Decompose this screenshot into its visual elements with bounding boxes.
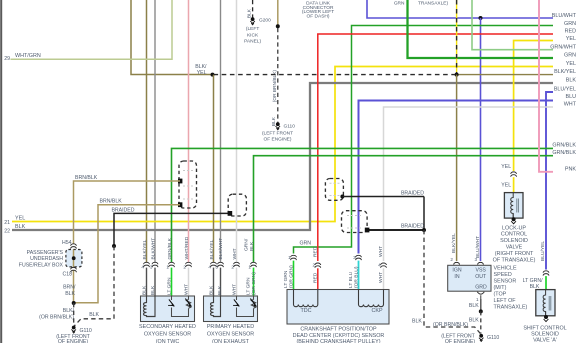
wire RED to TDC bbox=[318, 34, 553, 261]
svg-text:OUT: OUT bbox=[475, 274, 487, 280]
svg-text:(LEFT: (LEFT bbox=[246, 26, 259, 32]
wire BLU/YEL bbox=[546, 92, 553, 270]
wire WHT primary O2 pin2 vertical (shielded) bbox=[236, 0, 238, 262]
wire BLK dashed from braided drain to G110 left bbox=[74, 246, 114, 326]
wire LT GRN (OR GRN) into TDC bbox=[293, 261, 295, 290]
wire BRAIDED shield (lower right) bbox=[367, 229, 425, 231]
svg-text:CONTROL: CONTROL bbox=[501, 232, 527, 238]
svg-text:BLU/WHT: BLU/WHT bbox=[475, 236, 481, 258]
node BRN/BLK splice bbox=[276, 24, 280, 28]
wire LT GRN to sec O2 element bbox=[171, 268, 173, 296]
wire BLK/WHT secondary O2 pin3 vertical bbox=[154, 0, 156, 262]
sensor element (primary) bbox=[237, 296, 254, 317]
svg-text:2: 2 bbox=[231, 264, 234, 269]
svg-text:H54: H54 bbox=[62, 240, 72, 246]
pin contact braided lower bbox=[365, 228, 370, 233]
svg-text:SOLENOID: SOLENOID bbox=[531, 332, 559, 338]
svg-text:FUSE/RELAY BOX: FUSE/RELAY BOX bbox=[19, 262, 64, 268]
svg-text:(OR BLU): (OR BLU) bbox=[354, 266, 360, 288]
shift control solenoid valve A box bbox=[536, 290, 555, 316]
svg-text:BLK: BLK bbox=[217, 285, 223, 295]
svg-text:1: 1 bbox=[166, 264, 169, 269]
wire BLK/YEL dashed horizontal (junction A to B) bbox=[214, 74, 456, 76]
svg-text:OXYGEN SENSOR: OXYGEN SENSOR bbox=[207, 332, 254, 338]
passenger underdash fuse/relay box (dashed) bbox=[66, 250, 82, 267]
primary heated oxygen sensor box bbox=[204, 296, 258, 322]
wire LT GRN (OR GRN) to pri O2 element bbox=[253, 268, 255, 296]
pin contact braided bbox=[228, 211, 233, 216]
wire GRN to TDC bbox=[294, 26, 554, 254]
svg-text:(OR GRN): (OR GRN) bbox=[251, 272, 257, 295]
wire WHT to CKP bbox=[384, 107, 554, 261]
left edge component border bbox=[0, 0, 2, 343]
svg-text:OF ENGINE): OF ENGINE) bbox=[264, 136, 292, 142]
svg-text:YEL: YEL bbox=[566, 36, 576, 42]
wire BRN/BLK C18 to junction bbox=[73, 270, 75, 303]
lock-up solenoid coil bbox=[511, 193, 513, 219]
connector box around WHT wire (dashed) bbox=[228, 194, 246, 216]
wire BLK/YEL secondary O2 pin4 vertical bbox=[146, 0, 148, 262]
svg-text:DEAD CENTER (CKP/TDC) SENSOR: DEAD CENTER (CKP/TDC) SENSOR bbox=[293, 333, 385, 339]
svg-text:WHT: WHT bbox=[378, 272, 384, 283]
wire BLK to sec O2 heater a bbox=[146, 268, 148, 296]
svg-text:G110: G110 bbox=[284, 124, 296, 130]
svg-text:G110: G110 bbox=[487, 335, 499, 341]
svg-text:YEL: YEL bbox=[197, 70, 207, 76]
svg-text:(ON TWC: (ON TWC bbox=[156, 339, 180, 343]
node BLU/WHT branch bbox=[479, 16, 483, 20]
wire BRN/BLK lower branch (junction to engine connector) bbox=[74, 205, 180, 303]
VSS pin 2 entry bbox=[454, 262, 460, 264]
svg-text:OF ENGINE): OF ENGINE) bbox=[58, 339, 89, 343]
svg-text:GRN/BLK: GRN/BLK bbox=[552, 143, 576, 149]
VSS pin 3 entry bbox=[478, 262, 484, 264]
heater element (primary) bbox=[211, 296, 221, 317]
svg-text:YEL: YEL bbox=[15, 216, 25, 222]
svg-text:CRANKSHAFT POSITION/TOP: CRANKSHAFT POSITION/TOP bbox=[300, 327, 377, 333]
svg-text:GRN: GRN bbox=[564, 21, 576, 27]
connector + pin 1 at x=253.5 bbox=[251, 262, 257, 264]
ground tick lock-up solenoid bbox=[511, 221, 516, 224]
pin contact BRN/BLK lower bbox=[178, 202, 182, 207]
svg-text:(TOP: (TOP bbox=[494, 292, 507, 298]
svg-text:4: 4 bbox=[378, 263, 381, 268]
node braided junction bbox=[422, 228, 426, 232]
svg-text:BLK: BLK bbox=[249, 241, 255, 251]
wire BLK to pri O2 heater a bbox=[213, 268, 215, 296]
svg-text:IGN: IGN bbox=[452, 268, 461, 274]
svg-text:SECONDARY HEATED: SECONDARY HEATED bbox=[139, 324, 196, 330]
connector + pin 1 at x=171.5 bbox=[169, 262, 175, 264]
wire BRN/BLK upper branch (H54 to engine connector) bbox=[74, 181, 181, 244]
svg-text:3: 3 bbox=[150, 264, 153, 269]
svg-text:WHT: WHT bbox=[231, 284, 237, 295]
svg-text:LT GRN/: LT GRN/ bbox=[523, 278, 544, 284]
svg-text:GRN/BLK: GRN/BLK bbox=[167, 237, 173, 259]
wire through fuse box bbox=[73, 250, 75, 268]
svg-text:BRN/: BRN/ bbox=[63, 285, 76, 291]
svg-text:3: 3 bbox=[474, 257, 477, 262]
svg-text:BLK/YEL: BLK/YEL bbox=[142, 239, 148, 259]
svg-text:SHIFT CONTROL: SHIFT CONTROL bbox=[523, 325, 566, 331]
svg-text:BLU/YEL: BLU/YEL bbox=[554, 86, 576, 92]
connector box around GRN+BLU wires (dashed) bbox=[342, 211, 368, 233]
wire BRN/BLK from top bbox=[277, 0, 279, 26]
svg-text:PRIMARY HEATED: PRIMARY HEATED bbox=[207, 324, 254, 330]
svg-text:YEL: YEL bbox=[501, 182, 511, 188]
pin contact BRN/BLK upper bbox=[178, 179, 182, 184]
svg-text:GRD: GRD bbox=[475, 284, 487, 290]
svg-text:YEL: YEL bbox=[501, 164, 511, 170]
wire GRN/WHT bbox=[472, 0, 553, 50]
wire BLK dashed VSS to G110 bbox=[480, 311, 482, 333]
svg-text:(BEHIND CRANKSHAFT PULLEY): (BEHIND CRANKSHAFT PULLEY) bbox=[296, 339, 380, 343]
node inside fuse box bbox=[72, 256, 76, 260]
svg-text:GRN/BLK: GRN/BLK bbox=[552, 150, 576, 156]
svg-text:BLK: BLK bbox=[469, 318, 479, 324]
svg-text:1: 1 bbox=[288, 255, 291, 260]
wire BLK to G200 (dashed) bbox=[252, 0, 254, 18]
CKP pickup coil bbox=[359, 290, 384, 307]
wire WHT into CKP bbox=[383, 268, 385, 290]
svg-text:1: 1 bbox=[248, 264, 251, 269]
connector + pin 2 at x=188.5 bbox=[186, 262, 192, 264]
wire YEL to lock-up solenoid bbox=[514, 41, 553, 172]
svg-text:RED: RED bbox=[313, 246, 319, 257]
svg-text:(M/T): (M/T) bbox=[494, 285, 507, 291]
ghost wires inside connector bbox=[183, 170, 193, 172]
svg-text:BRAIDED: BRAIDED bbox=[401, 190, 424, 196]
svg-text:GRN: GRN bbox=[394, 0, 405, 6]
wire WHT to sec O2 element bbox=[188, 268, 190, 296]
wire BLK/WHT primary O2 pin3 vertical bbox=[220, 0, 222, 262]
svg-text:1: 1 bbox=[476, 297, 479, 302]
wire BLK/YEL right segment bbox=[457, 74, 553, 76]
lock-up control solenoid valve box bbox=[504, 193, 523, 219]
svg-text:BLK/: BLK/ bbox=[63, 308, 75, 314]
node BRN/BLK junction bbox=[72, 301, 76, 305]
wire BLK to sec O2 heater b bbox=[154, 268, 156, 296]
svg-text:VALVE: VALVE bbox=[506, 245, 523, 251]
svg-text:UNDERDASH: UNDERDASH bbox=[30, 256, 63, 262]
svg-text:VSS: VSS bbox=[476, 268, 487, 274]
svg-text:VALVE 'A': VALVE 'A' bbox=[533, 338, 557, 343]
wire BLK dashed from braided to G110 right bbox=[424, 230, 481, 334]
svg-text:LT GRN: LT GRN bbox=[283, 270, 289, 288]
node braided drain splice bbox=[112, 244, 116, 248]
connector + pin 3 CKP LT BLU bbox=[356, 255, 362, 257]
svg-text:WHT/GRN: WHT/GRN bbox=[15, 53, 41, 59]
wire BLK from VSS GRD bbox=[480, 299, 482, 311]
ground G110 (center) bbox=[276, 122, 280, 126]
svg-text:BLU: BLU bbox=[566, 94, 577, 100]
svg-text:BLK: BLK bbox=[247, 8, 253, 18]
svg-text:BLK: BLK bbox=[150, 285, 156, 295]
connector + pin 4 at x=146.5 bbox=[144, 262, 150, 264]
connector box around YEL wire (dashed) bbox=[325, 179, 343, 201]
svg-text:BLK: BLK bbox=[566, 78, 577, 84]
node braided tap on YEL connector bbox=[340, 195, 344, 199]
node BLK/YEL junction B bbox=[455, 73, 459, 77]
svg-text:TDC: TDC bbox=[300, 308, 311, 314]
wire GRN (countershaft speed sensor) bbox=[408, 0, 554, 58]
svg-text:IN: IN bbox=[454, 274, 459, 280]
wire GRN/BLK primary O2 bbox=[254, 156, 554, 262]
svg-text:BRN/BLK: BRN/BLK bbox=[75, 175, 98, 181]
svg-text:TRANSAXLE): TRANSAXLE) bbox=[494, 305, 528, 311]
node solenoid ground bbox=[512, 217, 516, 221]
wire LT GRN/BLK into shift solenoid bbox=[545, 276, 547, 290]
svg-text:BRAIDED: BRAIDED bbox=[401, 224, 424, 230]
svg-text:(RIGHT FRONT: (RIGHT FRONT bbox=[495, 251, 534, 257]
svg-text:GRN/WHT: GRN/WHT bbox=[550, 44, 576, 50]
svg-text:KICK: KICK bbox=[247, 32, 259, 38]
svg-text:(OR GRN): (OR GRN) bbox=[289, 265, 295, 288]
ghost marks in connector boxes bbox=[347, 215, 362, 217]
svg-text:WHT: WHT bbox=[232, 248, 238, 259]
svg-text:BLK/WHT: BLK/WHT bbox=[218, 238, 224, 260]
svg-text:BLK: BLK bbox=[208, 285, 214, 295]
TDC pickup coil bbox=[294, 290, 318, 307]
vehicle speed sensor box bbox=[448, 265, 491, 291]
connector + pin 3 at x=220.5 bbox=[218, 262, 224, 264]
svg-text:BLK: BLK bbox=[412, 318, 422, 324]
svg-text:2: 2 bbox=[450, 257, 453, 262]
svg-text:BLK/WHT: BLK/WHT bbox=[150, 238, 156, 260]
connector + pin 2 TDC RED bbox=[315, 263, 321, 265]
svg-text:BLK/YEL: BLK/YEL bbox=[209, 239, 215, 259]
wire BLU/WHT bbox=[367, 0, 553, 18]
wire BLK pin 22 bus bbox=[12, 83, 553, 230]
svg-text:(ON EXHAUST: (ON EXHAUST bbox=[212, 339, 250, 343]
connector C (engine wire harness, dashed) bbox=[179, 161, 197, 208]
VSS pin 1 exit (Y) bbox=[477, 292, 484, 299]
ground tick shift solenoid bbox=[544, 319, 549, 322]
svg-text:CKP: CKP bbox=[371, 308, 382, 314]
wire YEL into solenoid bbox=[513, 177, 515, 192]
svg-text:LT GRN: LT GRN bbox=[245, 277, 251, 295]
svg-text:WHT: WHT bbox=[183, 284, 189, 295]
wire BLK/YEL down to primary O2 pin 4 bbox=[213, 75, 215, 262]
svg-text:LOCK-UP: LOCK-UP bbox=[502, 225, 526, 231]
svg-text:TRANSAXLE): TRANSAXLE) bbox=[418, 0, 449, 6]
wire BRAIDED shield (upper right) bbox=[342, 196, 424, 198]
wire GRN/BLK secondary O2 bbox=[172, 148, 554, 262]
svg-text:BRAIDED: BRAIDED bbox=[111, 207, 134, 213]
svg-text:2: 2 bbox=[183, 264, 186, 269]
secondary heated oxygen sensor box bbox=[141, 296, 195, 322]
svg-text:(LEFT FRONT: (LEFT FRONT bbox=[262, 130, 293, 136]
svg-text:OF DASH): OF DASH) bbox=[307, 14, 330, 20]
svg-text:OF ENGINE): OF ENGINE) bbox=[445, 339, 476, 343]
svg-text:4: 4 bbox=[141, 264, 144, 269]
svg-text:GRN/: GRN/ bbox=[243, 238, 249, 251]
svg-text:C18: C18 bbox=[62, 272, 72, 278]
wire BLK dashed to G110 left bbox=[73, 303, 75, 326]
svg-text:BLK: BLK bbox=[15, 224, 26, 230]
svg-text:G200: G200 bbox=[259, 17, 271, 23]
svg-text:BLK: BLK bbox=[89, 312, 99, 318]
connector on YEL bbox=[511, 172, 517, 174]
ground G110 right bbox=[479, 334, 483, 338]
wire BLK/YEL dashed vertical from top bbox=[456, 0, 458, 73]
ground G200 bbox=[251, 17, 255, 21]
svg-text:OXYGEN SENSOR: OXYGEN SENSOR bbox=[144, 332, 191, 338]
node shift solenoid ground bbox=[544, 315, 548, 319]
wire BRAIDED shield drain (left) bbox=[114, 213, 230, 246]
connector + pin 2 at x=236.5 bbox=[234, 262, 240, 264]
wire YEL pin 21 bus bbox=[12, 67, 553, 222]
svg-text:21: 21 bbox=[4, 220, 10, 226]
svg-text:PANEL): PANEL) bbox=[244, 39, 261, 45]
connector + pin 3 at x=155 bbox=[152, 262, 158, 264]
crankshaft position/top dead center sensor box bbox=[287, 290, 389, 325]
svg-text:3: 3 bbox=[215, 264, 218, 269]
svg-text:LT GRN: LT GRN bbox=[166, 277, 172, 295]
wire BLK/YEL from top to junction A bbox=[131, 0, 212, 75]
svg-text:2: 2 bbox=[312, 263, 315, 268]
svg-text:SPEED: SPEED bbox=[494, 272, 512, 278]
ground G110 left bbox=[72, 326, 76, 330]
wire RED into TDC bbox=[317, 268, 319, 290]
svg-text:PASSENGER'S: PASSENGER'S bbox=[27, 250, 64, 256]
svg-text:LT BLU: LT BLU bbox=[348, 271, 354, 288]
svg-text:BLK/YEL: BLK/YEL bbox=[554, 69, 576, 75]
heater element (secondary) bbox=[144, 296, 156, 317]
svg-text:WHT: WHT bbox=[564, 101, 577, 107]
svg-text:PNK: PNK bbox=[565, 166, 576, 172]
wire WHT/RED secondary O2 pin2 vertical bbox=[188, 0, 190, 262]
svg-text:SENSOR: SENSOR bbox=[494, 279, 517, 285]
wire BLK/YEL down to VSS pin 2 bbox=[456, 75, 458, 261]
svg-text:4: 4 bbox=[208, 264, 211, 269]
svg-text:BLK/YEL: BLK/YEL bbox=[451, 233, 457, 253]
svg-text:WHT: WHT bbox=[378, 246, 384, 257]
svg-text:(OR BRN/BLK): (OR BRN/BLK) bbox=[433, 322, 468, 328]
svg-text:(OR BRN/BLK): (OR BRN/BLK) bbox=[39, 315, 74, 321]
wire BLU to CKP bbox=[359, 101, 554, 254]
svg-text:SOLENOID: SOLENOID bbox=[500, 238, 528, 244]
wire WHT/GRN pin 29 bbox=[11, 0, 173, 59]
wire PNK bbox=[539, 0, 553, 172]
shift solenoid coil bbox=[543, 290, 545, 317]
svg-text:BLU/YEL: BLU/YEL bbox=[540, 241, 546, 261]
svg-text:3: 3 bbox=[353, 255, 356, 260]
node VSS ground splice bbox=[479, 309, 483, 313]
wire WHT to pri O2 element bbox=[236, 268, 238, 296]
svg-text:22: 22 bbox=[4, 229, 10, 235]
svg-text:VEHICLE: VEHICLE bbox=[494, 266, 517, 272]
sensor element (secondary) bbox=[172, 296, 189, 317]
svg-text:WHT/RED: WHT/RED bbox=[184, 236, 190, 259]
svg-text:GRN: GRN bbox=[564, 52, 576, 58]
svg-text:RED: RED bbox=[565, 28, 576, 34]
svg-text:29: 29 bbox=[4, 56, 10, 62]
connector BLU/YEL to LT GRN/BLK bbox=[543, 271, 549, 273]
wire LT BLU (OR BLU) into CKP bbox=[358, 261, 360, 290]
wire braided vertical link bbox=[423, 197, 425, 231]
connector + pin 4 at x=213.5 bbox=[211, 262, 217, 264]
svg-text:BLK: BLK bbox=[65, 291, 75, 297]
svg-text:YEL: YEL bbox=[566, 61, 576, 67]
svg-text:BRN/BLK: BRN/BLK bbox=[100, 199, 123, 205]
connector C18 bbox=[71, 267, 77, 269]
wire BLU/WHT down to VSS pin 3 bbox=[480, 18, 482, 261]
svg-text:RED: RED bbox=[313, 272, 319, 283]
svg-text:BLK: BLK bbox=[141, 285, 147, 295]
connector H54 bbox=[71, 244, 77, 246]
connector + pin 4 CKP WHT bbox=[381, 263, 387, 265]
wire BLK to pri O2 heater b bbox=[220, 268, 222, 296]
svg-text:LEFT OF: LEFT OF bbox=[494, 298, 517, 304]
svg-text:OF TRANSAXLE): OF TRANSAXLE) bbox=[493, 257, 536, 263]
svg-text:GRN: GRN bbox=[299, 241, 311, 247]
wire BLK (OR BRN/BLK) dashed to G110 bbox=[277, 28, 279, 123]
connector + pin 1 TDC GRN bbox=[291, 255, 297, 257]
svg-text:BLU/WHT: BLU/WHT bbox=[552, 13, 577, 19]
node BLK/YEL junction A bbox=[211, 73, 215, 77]
svg-text:BLK: BLK bbox=[469, 303, 479, 309]
